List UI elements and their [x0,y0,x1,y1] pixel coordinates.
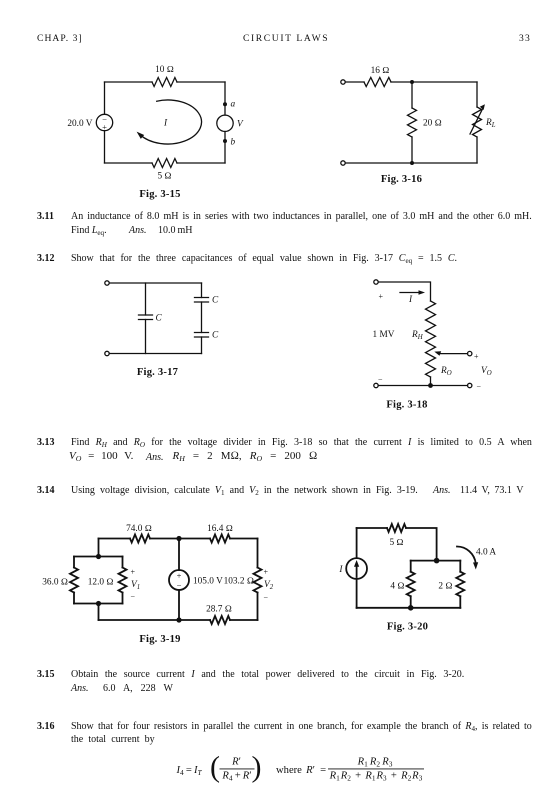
terminal bottom-right 3-18 [468,383,472,387]
problem 3.16 [37,721,55,732]
svg-text:R1 R2 + R1 R3 + R2 R3: R1 R2 + R1 R3 + R2 R3 [329,771,423,783]
svg-text:103.2 Ω: 103.2 Ω [224,577,254,587]
svg-text:R4 + R′: R4 + R′ [221,771,251,783]
terminal top-left 3-17 [105,281,109,285]
svg-text:10 Ω: 10 Ω [155,65,174,75]
svg-text:20.0 V: 20.0 V [67,119,92,129]
wire Fig3-15 top rail [105,81,226,83]
svg-text:Fig. 3-15: Fig. 3-15 [139,189,180,200]
problem 3.11 [37,211,54,222]
problem 3.12 [37,253,55,264]
header [37,33,83,44]
svg-text:R′: R′ [231,757,241,768]
resistor 28.7ohm [210,616,230,624]
resistor 2ohm [459,561,461,608]
terminal top-left 3-16 [341,80,345,84]
svg-text:−: − [378,375,383,384]
wire 3-20 bottom rail [357,607,461,609]
resistor 16ohm [364,78,391,87]
svg-text:V: V [237,120,244,130]
resistor 12.0ohm [122,557,124,604]
node 3-19 center bottom [176,617,181,622]
wire 3-19 bottom rail [99,619,258,621]
svg-text:RL: RL [485,118,496,129]
svg-text:16 Ω: 16 Ω [371,66,390,76]
wire 3-17 bottom [109,353,201,355]
resistor 10ohm [152,78,177,87]
svg-text:Fig. 3-20: Fig. 3-20 [387,622,428,633]
wire 3-16 bottom [345,162,477,164]
node 3-19 left bottom [96,601,101,606]
svg-text:RH: RH [411,330,424,341]
wire 3-18 bottom [378,385,467,387]
svg-text:I: I [408,295,413,305]
svg-text:28.7 Ω: 28.7 Ω [206,605,232,615]
arrow I [400,292,421,294]
svg-text:I: I [163,119,168,129]
svg-text:−: − [477,382,482,391]
capacitor C left [145,283,147,354]
node 3-18 bottom [428,383,433,388]
node a [223,102,227,106]
wire 3-20 inner top rail [411,560,461,562]
svg-text:20 Ω: 20 Ω [423,119,442,129]
resistor 74.0ohm [130,535,150,543]
wire 3-18 top [378,282,430,301]
svg-text:C: C [212,296,219,306]
svg-text:where R′ =: where R′ = [276,765,326,776]
svg-text:V1: V1 [131,580,140,591]
wire Fig3-15 right rail [224,82,226,163]
wire 3-19 parallel box rails [74,557,123,604]
svg-text:+: + [131,568,136,577]
current loop I [140,100,202,144]
terminal bottom-left 3-16 [341,161,345,165]
svg-text:b: b [231,138,236,148]
svg-text:−: − [177,581,182,591]
node b [223,139,227,143]
node 3-20 bottom [408,605,414,611]
svg-text:V2: V2 [264,580,274,591]
resistor 103.2ohm [257,539,259,621]
svg-text:+: + [177,571,182,581]
svg-text:105.0 V: 105.0 V [193,577,223,587]
svg-text:12.0 Ω: 12.0 Ω [88,578,114,588]
svg-text:1 MV: 1 MV [373,330,395,340]
node 3-20 inner top [434,558,440,564]
voltmeter V [217,115,233,131]
svg-text:I4 = IT: I4 = IT [176,765,203,777]
terminal bottom-left 3-17 [105,351,109,355]
arrow 4.0A [457,546,476,563]
svg-text:36.0 Ω: 36.0 Ω [42,578,68,588]
node 3-16 bottom [410,161,414,165]
wire Fig3-15 bottom rail [105,162,226,164]
resistor RH/RO divider [426,301,436,377]
svg-text:+: + [379,292,384,301]
wire 3-19 left rail [98,539,100,621]
svg-text:RO: RO [440,366,452,377]
svg-text:C: C [212,331,219,341]
svg-text:74.0 Ω: 74.0 Ω [126,524,152,534]
svg-text:2 Ω: 2 Ω [438,582,452,592]
wire 3-19 top rail [99,538,258,540]
wire 3-16 top [345,81,477,83]
svg-text:4.0 A: 4.0 A [476,548,496,558]
node 3-19 left top [96,554,101,559]
svg-text:): ) [252,751,262,784]
svg-text:−: − [264,594,269,603]
resistor 36.0ohm [73,557,75,604]
resistor 16.4ohm [210,535,230,543]
svg-text:−: − [131,593,136,602]
variable resistor RL [476,82,478,163]
wiper arrow [468,351,472,355]
svg-text:16.4 Ω: 16.4 Ω [207,524,233,534]
resistor 4ohm [410,561,412,608]
svg-text:+: + [264,568,269,577]
formula I4 = IT(...) [176,751,425,784]
svg-text:5 Ω: 5 Ω [157,172,171,182]
svg-text:Fig. 3-19: Fig. 3-19 [139,634,180,645]
node 3-19 center top [176,536,181,541]
svg-text:+: + [102,122,107,132]
svg-text:C: C [156,314,163,324]
wire 3-17 top [109,282,201,284]
svg-text:4 Ω: 4 Ω [390,582,404,592]
svg-text:Fig. 3-16: Fig. 3-16 [381,174,422,185]
svg-text:R1 R2 R3: R1 R2 R3 [357,757,393,769]
wire 3-20 top rail [357,528,437,561]
terminal top-left 3-18 [374,280,378,284]
svg-text:Fig. 3-18: Fig. 3-18 [386,400,427,411]
resistor 20ohm branch [411,82,413,163]
svg-text:(: ( [210,751,220,784]
resistor 5ohm [152,159,177,168]
terminal bottom-left 3-18 [374,383,378,387]
capacitor C right upper [201,283,203,333]
current source I [356,528,358,608]
svg-text:I: I [338,565,343,575]
problem 3.15 [37,669,55,680]
svg-text:5 Ω: 5 Ω [389,538,403,548]
node 3-16 top [410,80,414,84]
wire Fig3-15 left rail [104,82,106,163]
capacitor C right lower [201,337,203,354]
svg-text:VO: VO [481,366,492,377]
resistor 5ohm [387,524,406,532]
svg-text:Fig. 3-17: Fig. 3-17 [137,367,179,378]
svg-text:a: a [231,100,236,110]
problem 3.13 [37,437,55,448]
svg-text:+: + [474,352,479,361]
problem 3.14 [37,485,55,496]
source 20.0V [96,114,112,130]
source 105.0V [178,539,180,621]
